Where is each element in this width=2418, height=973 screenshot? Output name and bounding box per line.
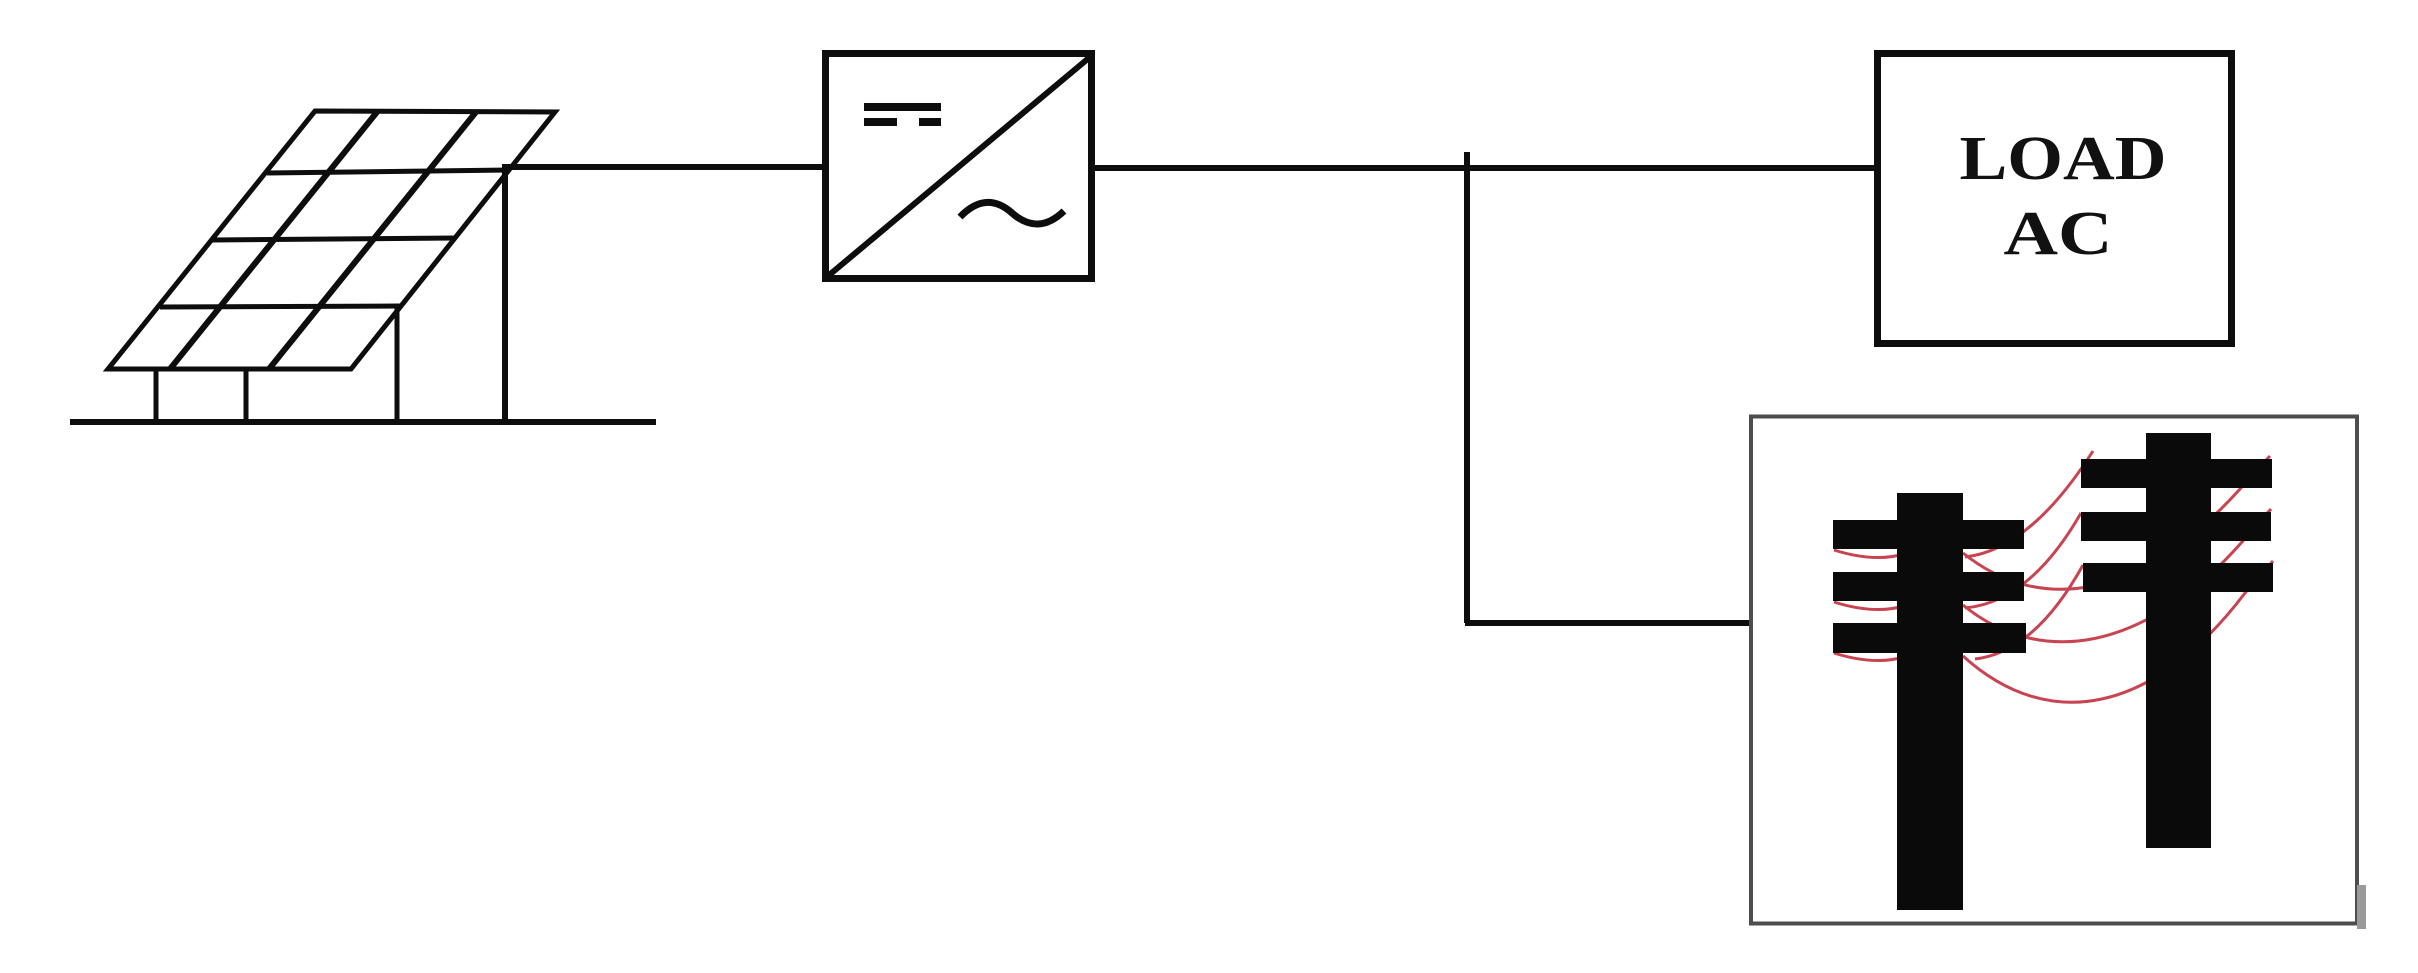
panel column line 2 bbox=[269, 112, 476, 369]
red span wire 2 bbox=[1963, 509, 2271, 642]
DC symbol dashed line bbox=[864, 118, 941, 126]
pole 2 crossarm 3 bbox=[2083, 563, 2273, 592]
red span wire 1 bbox=[1963, 456, 2270, 589]
red wire sag below left arm 3 bbox=[1834, 653, 1910, 661]
panel outline bbox=[108, 111, 555, 369]
utility pole 2 bbox=[2081, 433, 2273, 848]
inverter U1 box bbox=[826, 54, 1092, 279]
pole 2 crossarm 2 bbox=[2081, 512, 2271, 541]
inverter diagonal bbox=[828, 57, 1090, 276]
ground line bbox=[70, 419, 656, 425]
pole 1 crossarm 2 bbox=[1833, 572, 2024, 601]
utility pole 1 bbox=[1833, 493, 2026, 910]
red span wire 3 bbox=[1963, 561, 2273, 702]
red drop wire 1 bbox=[1965, 451, 2093, 557]
panel leg 2 bbox=[244, 369, 249, 422]
panel row line 3 bbox=[160, 306, 400, 307]
AC sine wave bbox=[960, 202, 1064, 224]
panel tall support bbox=[502, 168, 508, 422]
LOAD AC box bbox=[1878, 54, 2232, 344]
pole 1 crossarm 1 bbox=[1833, 520, 2024, 549]
red wire sag below left arm 2 bbox=[1834, 602, 1910, 610]
grid box scroll handle artifact bbox=[2357, 885, 2366, 929]
red drop wire 3 bbox=[1975, 565, 2083, 659]
wire junction drop to grid bbox=[1464, 152, 1470, 623]
wire inverter to load bbox=[1092, 165, 1878, 171]
wire bottom horizontal to grid box bbox=[1465, 620, 1753, 626]
utility grid box bbox=[1751, 417, 2357, 924]
svg-text:AC: AC bbox=[2004, 200, 2113, 268]
panel mid support bbox=[395, 306, 400, 422]
panel leg 1 bbox=[154, 369, 159, 422]
panel row line 1 bbox=[267, 170, 509, 173]
wire panel to inverter bbox=[502, 164, 825, 170]
pole 2 crossarm 1 bbox=[2081, 459, 2272, 488]
red distribution wires bbox=[1834, 451, 2273, 702]
solar panel PV array bbox=[70, 111, 656, 422]
DC symbol solid line bbox=[864, 103, 941, 111]
red drop wire 2 bbox=[1965, 513, 2081, 608]
pole 1 crossarm 3 bbox=[1833, 623, 2026, 653]
svg-text:LOAD: LOAD bbox=[1960, 125, 2167, 193]
red wire sag below left arm 1 bbox=[1834, 550, 1910, 558]
panel row line 2 bbox=[212, 238, 455, 240]
panel column line 1 bbox=[170, 112, 377, 369]
